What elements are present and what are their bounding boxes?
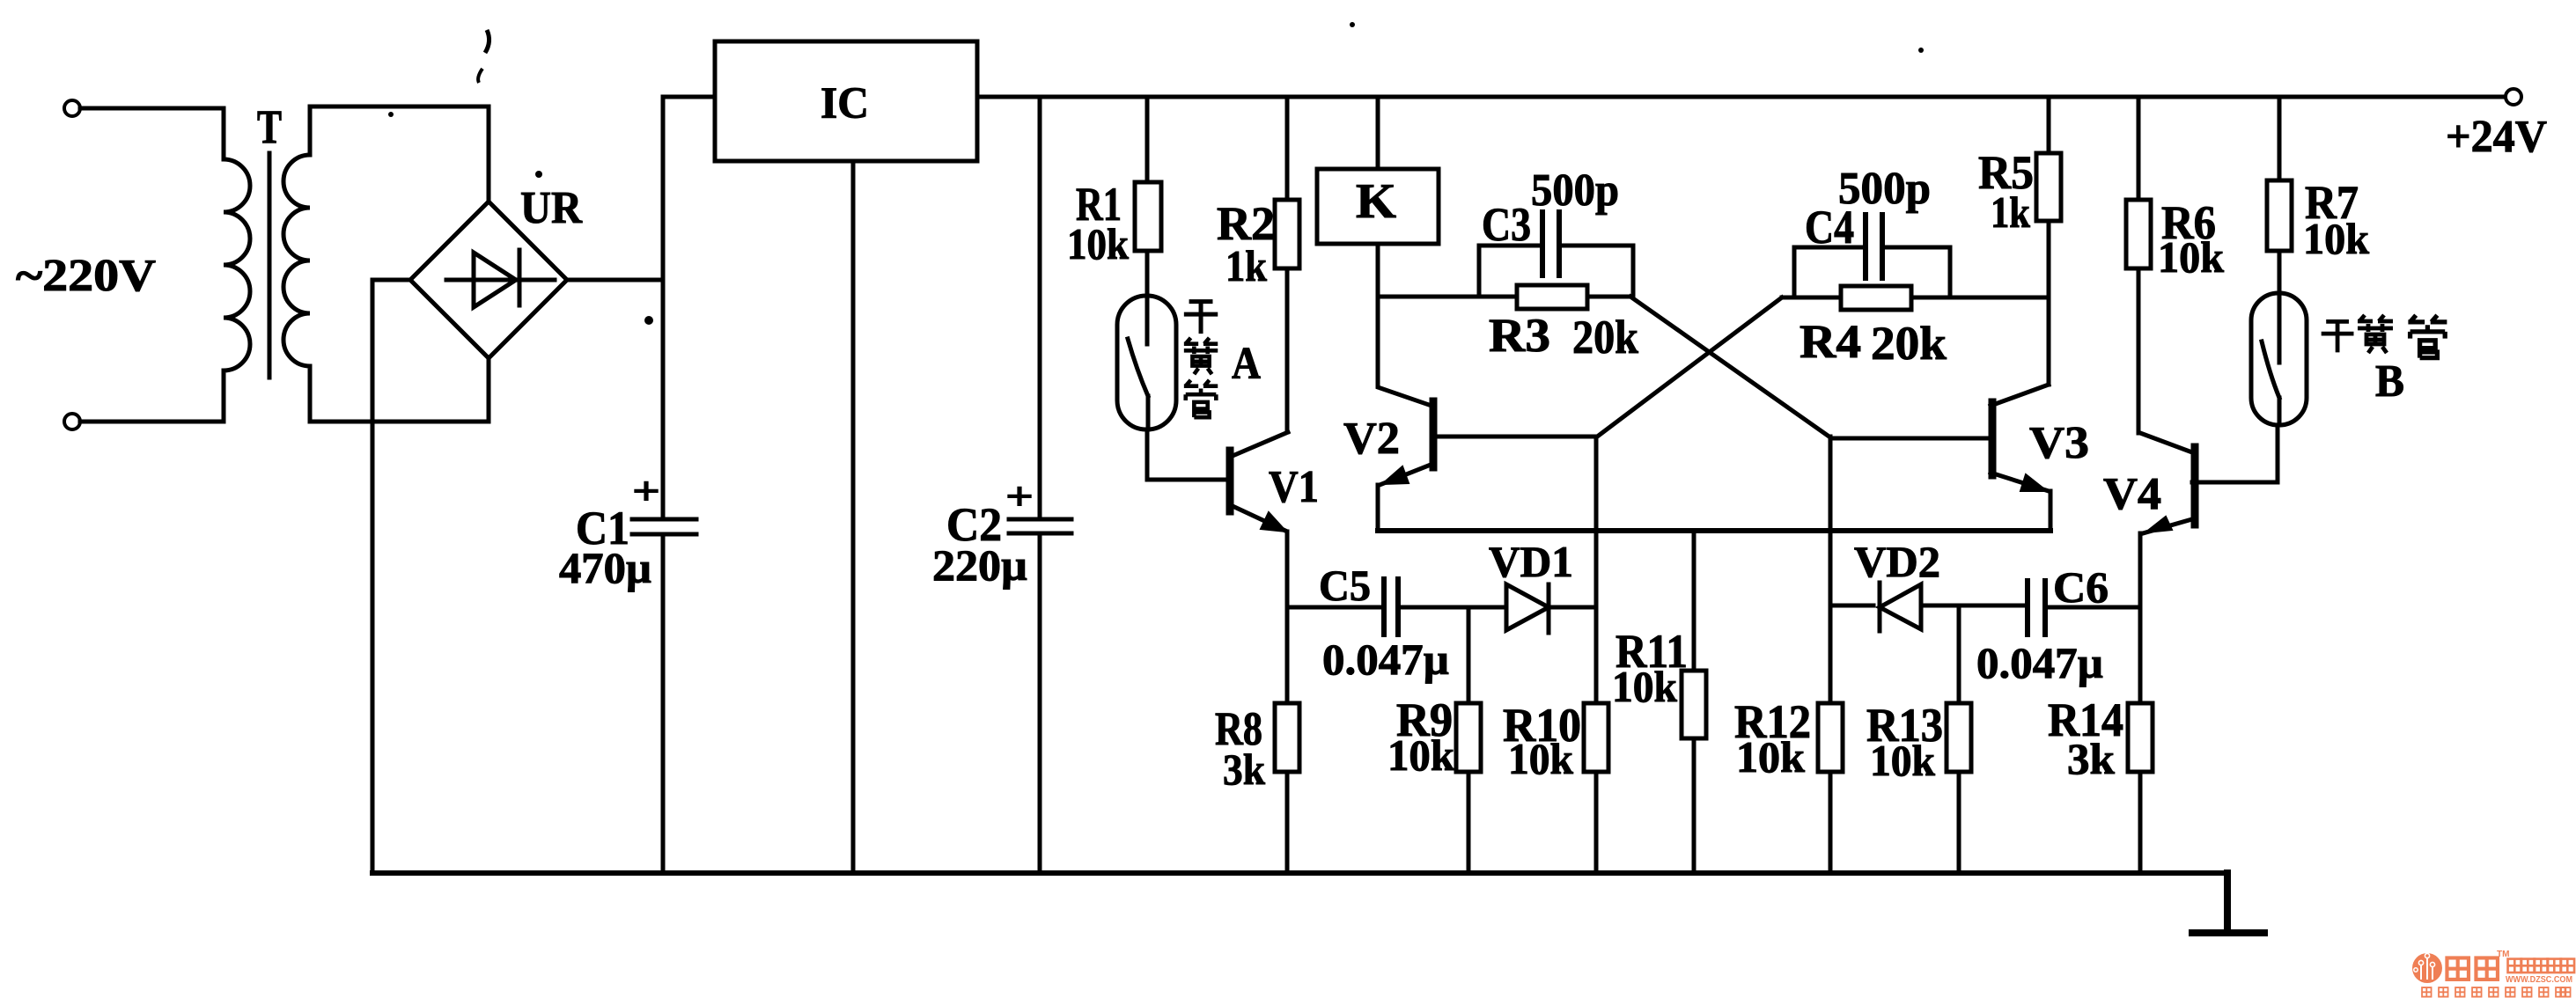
svg-text:V3: V3: [2029, 418, 2089, 468]
wire: V4 emitter down to ground rail: [2138, 533, 2143, 873]
transistor V1 base bar: [1226, 451, 1234, 511]
svg-text:+24V: +24V: [2446, 112, 2547, 162]
wire: top AC lead: [80, 106, 224, 111]
svg-text:10k: 10k: [1612, 662, 1677, 711]
wire: cross coupling R3 to V3 base: [1630, 297, 1830, 437]
capacitor C4 bracket: [1794, 247, 1950, 297]
watermark site name chars: [2508, 959, 2522, 973]
svg-text:R3: R3: [1489, 309, 1550, 362]
reed switch A contacts: [1128, 296, 1148, 429]
svg-text:~220V: ~220V: [16, 251, 156, 301]
svg-text:R4: R4: [1800, 315, 1861, 368]
resistor R5 branch wire: [2047, 97, 2051, 385]
resistor R14: [2128, 703, 2153, 772]
wire: V2 base line: [1436, 435, 1596, 439]
transistor V2 emitter arrow: [1382, 466, 1409, 484]
svg-text:500p: 500p: [1838, 164, 1931, 214]
label reed A text huang: [1184, 338, 1218, 374]
svg-text:VD1: VD1: [1489, 537, 1573, 586]
watermark logo circle: [2412, 953, 2442, 983]
svg-text:T: T: [257, 100, 282, 153]
bridge rectifier UR diamond: [410, 202, 567, 358]
resistor R2 branch wire: [1285, 97, 1290, 432]
resistor R10: [1584, 703, 1608, 772]
wire: ground bottom rail: [372, 870, 2227, 876]
diode VD2 line: [1830, 604, 2023, 608]
capacitor C5 plates: [1384, 579, 1398, 635]
resistor R13 branch wire: [1957, 605, 1961, 873]
svg-text:WWW.DZSC.COM: WWW.DZSC.COM: [2506, 975, 2572, 985]
wire: secondary bottom to bridge: [310, 358, 489, 422]
transistor V3 collector: [1991, 385, 2049, 406]
svg-text:20k: 20k: [1572, 311, 1638, 363]
transistor V3 emitter arrow: [2020, 474, 2047, 491]
reed switch B contacts: [2262, 293, 2279, 425]
svg-text:B: B: [2375, 356, 2404, 407]
svg-text:0.047µ: 0.047µ: [1976, 638, 2103, 687]
svg-text:C3: C3: [1482, 198, 1531, 251]
resistor R4: [1841, 286, 1911, 310]
resistor R5: [2036, 153, 2061, 221]
capacitor C2: [1009, 519, 1071, 873]
svg-text:V1: V1: [1269, 462, 1319, 512]
transistor V4 collector: [2140, 433, 2192, 452]
wire: V2 emitter to emitter rail: [1376, 485, 1380, 528]
bridge rectifier UR internal diode: [446, 250, 555, 307]
watermark weiku big chars: [2447, 958, 2469, 980]
svg-text:A: A: [1232, 339, 1261, 389]
wire: +24V top rail: [977, 95, 2505, 99]
svg-text:10k: 10k: [1067, 219, 1129, 268]
svg-text:1k: 1k: [1225, 241, 1267, 290]
resistor R6: [2126, 200, 2151, 268]
watermark slogan chars: [2422, 987, 2432, 997]
resistor R11: [1682, 671, 1706, 738]
wire: secondary top to bridge: [310, 106, 489, 202]
svg-text:220µ: 220µ: [932, 540, 1027, 590]
transformer T secondary winding: [283, 106, 310, 422]
svg-text:1k: 1k: [1991, 187, 2030, 237]
diode VD1: [1506, 584, 1596, 633]
label reed A text guan: [1184, 380, 1218, 417]
label reed B text gan: [2322, 321, 2354, 352]
resistor R7: [2267, 180, 2292, 251]
svg-text:V4: V4: [2103, 469, 2161, 519]
svg-text:K: K: [1356, 174, 1396, 229]
wire: R12 branch / V3 base vertical: [1829, 437, 1833, 873]
capacitor C1: [632, 519, 696, 873]
node: AC input terminal top: [64, 100, 80, 116]
relay K box: [1317, 169, 1439, 244]
wire: C1 node vertical / IC input feed: [663, 97, 715, 518]
svg-text:10k: 10k: [1870, 736, 1935, 785]
capacitor C4 plates: [1866, 215, 1882, 278]
svg-text:0.047µ: 0.047µ: [1322, 635, 1449, 684]
ground symbol: [2192, 873, 2264, 933]
resistor R2: [1275, 200, 1299, 268]
wire: R4 node line: [1782, 296, 2049, 300]
transistor V2 base bar: [1430, 401, 1438, 467]
transformer T core: [268, 153, 272, 378]
transistor V1 emitter arrow: [1261, 512, 1286, 532]
transistor V1 emitter: [1233, 506, 1285, 531]
svg-text:V2: V2: [1343, 414, 1400, 464]
wire: V4 base line to reed B: [2192, 425, 2278, 482]
capacitor C3 plates: [1542, 212, 1559, 275]
label reed A text gan: [1184, 302, 1218, 334]
wire: bridge negative output down to ground rail: [372, 280, 410, 873]
svg-text:10k: 10k: [1508, 734, 1573, 783]
transistor V3 base bar: [1989, 402, 1997, 475]
node: AC input terminal bottom: [64, 414, 80, 429]
svg-text:C5: C5: [1319, 561, 1371, 610]
svg-text:+: +: [632, 468, 660, 513]
wire: C2 branch from rail: [1038, 97, 1042, 518]
wire: bridge positive output to C1 node: [567, 278, 663, 283]
svg-text:10k: 10k: [1736, 732, 1805, 782]
svg-text:10k: 10k: [1387, 730, 1454, 780]
label reed B text guan: [2408, 315, 2447, 357]
wire: reed A to V1 base: [1147, 429, 1226, 480]
transistor V2 emitter: [1380, 465, 1431, 485]
resistor R7 branch wire: [2278, 97, 2282, 293]
node: +24V output terminal: [2506, 89, 2521, 105]
resistor R11 branch wire: [1692, 531, 1696, 873]
resistor R1: [1135, 182, 1161, 251]
wire: bottom AC lead: [80, 420, 224, 424]
resistor R8: [1275, 703, 1299, 772]
resistor R9: [1456, 703, 1481, 772]
transistor V3 emitter: [1991, 473, 2049, 491]
reed switch B envelope: [2251, 293, 2307, 425]
relay K feed wire: [1376, 97, 1380, 169]
svg-text:470µ: 470µ: [559, 543, 651, 592]
wire: V3 base line: [1830, 437, 1989, 441]
wire: V1 emitter down to ground rail: [1285, 532, 1290, 873]
svg-text:+: +: [1005, 473, 1034, 518]
scan speckle marks: [388, 22, 1924, 325]
transistor V4 base bar: [2191, 447, 2199, 525]
capacitor C6 line: [2050, 605, 2140, 610]
svg-text:20k: 20k: [1871, 317, 1947, 370]
svg-text:500p: 500p: [1531, 165, 1619, 216]
svg-text:3k: 3k: [2067, 734, 2115, 783]
resistor R1 branch wire: [1145, 97, 1150, 296]
resistor R3: [1517, 285, 1587, 309]
transistor V4 emitter: [2143, 519, 2192, 533]
transformer T primary winding: [224, 108, 250, 422]
transistor V1 collector: [1233, 432, 1288, 456]
svg-text:UR: UR: [520, 183, 583, 233]
svg-text:IC: IC: [821, 79, 869, 128]
label reed B text huang: [2358, 315, 2393, 353]
diode VD2: [1880, 583, 1921, 631]
wire: cross coupling R4 to V2 base: [1596, 297, 1782, 437]
resistor R13: [1947, 703, 1971, 772]
IC ground pin wire: [851, 161, 856, 873]
reed switch A envelope: [1117, 296, 1176, 429]
resistor R6 branch wire: [2137, 97, 2141, 433]
svg-text:C6: C6: [2053, 562, 2109, 612]
wire: R10 branch / V2 base vertical: [1594, 437, 1599, 873]
transistor V4 emitter arrow: [2145, 517, 2172, 532]
capacitor C6 plates: [2028, 581, 2045, 635]
resistor R12: [1818, 703, 1843, 772]
capacitor C5 line: [1287, 605, 1506, 610]
svg-text:3k: 3k: [1223, 745, 1265, 794]
wire: V3 emitter to emitter rail: [2049, 491, 2053, 528]
wire: R3 node line: [1378, 295, 1630, 299]
resistor R9 branch wire: [1467, 607, 1471, 873]
wire: emitter rail: [1378, 528, 2050, 533]
svg-text:10k: 10k: [2303, 214, 2369, 263]
wire: K to R3 node and V2 collector: [1378, 244, 1432, 406]
svg-text:VD2: VD2: [1854, 537, 1940, 586]
svg-text:10k: 10k: [2158, 232, 2224, 282]
capacitor C3 bracket: [1479, 246, 1633, 297]
IC regulator box: [715, 41, 977, 161]
